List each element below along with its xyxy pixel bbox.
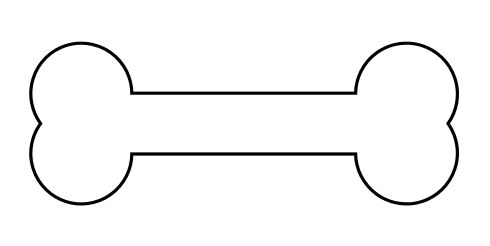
dog bone outline <box>31 43 458 204</box>
